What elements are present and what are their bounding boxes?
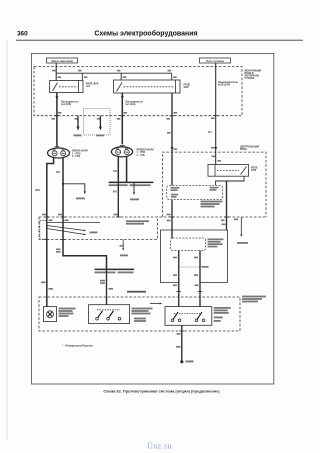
label: лампа индикатора ПТФ [59, 308, 76, 317]
label: правая фара [137, 148, 155, 156]
label: левая фара [72, 150, 88, 158]
ticks where wires cross band [45, 217, 121, 239]
pin number labels [130, 199, 139, 201]
pin number labels [167, 214, 171, 222]
label: предохранитель [218, 81, 238, 87]
wire: bus drop to relay K2 pin 1 [120, 73, 122, 80]
svg-text:Пост. питание: Пост. питание [206, 59, 224, 63]
label: переключатель света [214, 307, 231, 322]
pin number labels [52, 112, 62, 120]
wire: bus drop to relay K1 pin 2 [81, 73, 83, 80]
connector E1: левая фара [48, 147, 70, 158]
svg-text:ЧРН: ЧРН [35, 189, 40, 192]
control boxlet (dashed) [167, 185, 223, 199]
label: реле фар K1 [86, 83, 99, 89]
dotted option box [84, 109, 111, 136]
label above panel edge [127, 291, 146, 293]
svg-text:№1 (9га): №1 (9га) [126, 103, 136, 106]
svg-text:БЛОК: БЛОК [240, 148, 247, 151]
pin number labels [74, 118, 82, 136]
arrow stub to indicator signal [240, 217, 242, 236]
wire: relay K3 output down to module [226, 181, 228, 230]
splice bar J1 [95, 268, 135, 270]
outer schematic frame [32, 54, 274, 385]
svg-text:2 - ГАБ: 2 - ГАБ [72, 155, 80, 158]
wire: relay K3 output L [216, 176, 244, 185]
central unit box (dash-dot boundary) [163, 152, 267, 217]
arrow stub continuation S1 [77, 116, 79, 130]
pin number labels [212, 156, 222, 162]
scan artifact line [6, 40, 8, 440]
svg-text:550: 550 [56, 171, 61, 174]
switch block in band [40, 220, 47, 239]
pin number labels [95, 272, 134, 274]
label: проводимость №1 (9га) [126, 100, 144, 106]
svg-text:549: 549 [113, 191, 118, 194]
pin number labels [167, 112, 178, 150]
wire: E2 pin1 down [117, 157, 119, 183]
relay K3 [208, 165, 249, 177]
splice bar J2 [109, 181, 154, 183]
label: панель приборов [242, 296, 266, 303]
wire: top bus [56, 72, 172, 74]
pin number labels [221, 219, 238, 226]
svg-text:№1 (9гб): №1 (9гб) [61, 103, 71, 106]
wire: splice J1 to fog switch [106, 269, 108, 304]
wire: branch from B to body continuation [63, 184, 85, 194]
fan wire 1 [47, 222, 100, 224]
label: модуль управления освещением [201, 201, 223, 208]
svg-text:2 - ГАБ: 2 - ГАБ [137, 154, 145, 157]
svg-text:ПТФ: ПТФ [251, 169, 256, 172]
wire: bus drop to relay K2 pin 2 [171, 73, 173, 80]
connector tick on chain wire [170, 115, 175, 117]
pin number labels [237, 242, 248, 244]
wire: E2 pin2 down [126, 157, 128, 183]
relay K2 [114, 80, 181, 93]
arrow stub continuation S2 [99, 116, 101, 130]
pin number labels [117, 112, 127, 120]
svg-text:Ünz.su: Ünz.su [147, 442, 172, 451]
wire: relay K1 output to left fog lamp [56, 93, 58, 147]
svg-text:ФАР: ФАР [184, 86, 190, 89]
relay K1 [50, 81, 84, 93]
svg-text:ОТСЕКЕ: ОТСЕКЕ [245, 77, 255, 80]
pin number labels [176, 333, 181, 348]
wire: splice J2 to body continuation [133, 182, 135, 194]
svg-text:9гп: 9гп [208, 131, 212, 134]
label: проводимость №1 (9гб) [61, 100, 79, 106]
wire: fuse wire into relay K3 [215, 152, 217, 164]
pin number labels [109, 184, 151, 186]
wire B: lamp E1 pin2 down [63, 158, 107, 269]
svg-text:* - Фонари для Европы: * - Фонари для Европы [62, 344, 94, 348]
wire A: lamp E1 pin1 to indicator lamp [47, 158, 54, 307]
ticks: module wires to panel [177, 291, 203, 293]
pin number labels [76, 198, 85, 200]
direction arrowheads on feed wires [56, 96, 59, 100]
label box: Замок зажигания [47, 58, 78, 63]
fuse/relay box (dash-dot boundary) [34, 67, 242, 116]
label: монтажный блок в моторном отсеке [245, 70, 262, 81]
light switch SW2 [165, 307, 212, 326]
body control module box [161, 230, 228, 283]
svg-text:№18 (15А): №18 (15А) [218, 84, 230, 87]
fog switch SW1 [89, 305, 130, 324]
fan wire 3 [47, 229, 86, 235]
label: реле ПТФ [251, 167, 258, 173]
wire: SW2 to ground [181, 325, 183, 361]
pin number labels [171, 187, 219, 198]
wire: splice J2 to light switch band [117, 182, 119, 217]
long dashed boundary line [39, 216, 266, 218]
svg-text:Замок зажигания: Замок зажигания [51, 59, 73, 63]
svg-text:549: 549 [113, 170, 118, 173]
label: реле фар K2 [184, 83, 191, 89]
pin number labels [186, 361, 194, 363]
arrow stub below band [122, 239, 124, 250]
wire: relay K2 output to right fog lamp [121, 93, 123, 144]
wire: boxlet to module [171, 200, 173, 238]
module internal wires [178, 251, 180, 307]
connector tick on K1 output [55, 115, 60, 117]
label box: Питание постоянное [200, 58, 231, 63]
svg-text:№2: №2 [86, 85, 91, 88]
arrow into light switch SW2 [150, 303, 162, 305]
wire: ignition feed down from label box [55, 63, 57, 81]
pin number labels [211, 118, 215, 149]
fan wire 2 [47, 226, 86, 231]
pin number labels [120, 245, 129, 256]
dotted link [179, 266, 200, 268]
header rule [16, 39, 303, 41]
connector tick on K2 output [120, 115, 125, 117]
svg-text:Схемы электрооборудования: Схемы электрооборудования [94, 30, 197, 38]
ground G [180, 360, 183, 363]
label: ЧРН lower B [56, 249, 61, 253]
pin number labels [173, 257, 209, 286]
dashed element in module [171, 238, 206, 251]
pin number labels [96, 118, 104, 136]
pin labels above relays [52, 70, 177, 78]
wire: relay K2 pin to light module chain [171, 93, 173, 185]
pin number labels [100, 280, 113, 290]
pin number labels [90, 232, 98, 234]
wire: fuse feed from right label box [215, 63, 217, 152]
pin number labels [41, 282, 53, 290]
svg-text:360: 360 [17, 31, 28, 38]
instrument panel (dashed boundary) [39, 297, 240, 331]
junction dot on wire B [62, 183, 64, 185]
label: выключатель наружного освещения [126, 220, 149, 224]
connector E2: правая фара [111, 146, 132, 157]
light switch band (dashed) [39, 217, 158, 239]
pin number labels [208, 239, 224, 248]
tick: fuse wire through box edge [214, 115, 219, 117]
label: центральный блок [240, 145, 259, 151]
label: выключатель ПТФ [132, 308, 153, 322]
svg-text:Схема 82. Противотуманная сист: Схема 82. Противотуманная система (опции… [103, 389, 220, 394]
band pin smudges [42, 214, 118, 221]
indicator lamp L1 [44, 307, 57, 322]
